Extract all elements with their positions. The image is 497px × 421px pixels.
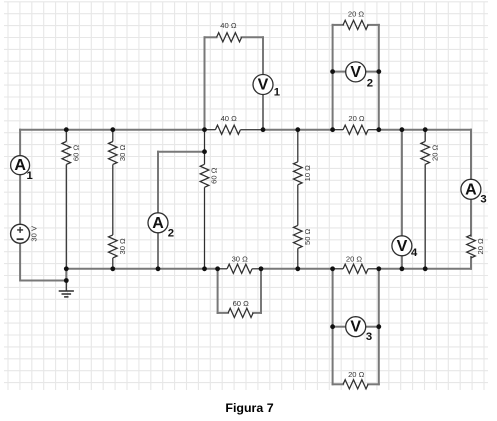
wire V3 right lead [365, 326, 379, 328]
wire 10-50 branch middle run [297, 185, 299, 226]
svg-text:40 Ω: 40 Ω [221, 114, 238, 123]
junction top bus / V4 [400, 127, 405, 132]
wire loop2 right vertical [378, 25, 380, 130]
wire A1 to source [19, 175, 21, 225]
voltmeter V2 [346, 62, 373, 89]
junction top bus / 30-30 branch [110, 127, 115, 132]
wire V3 loop right vertical [378, 269, 380, 385]
resistor 60-ohm (parallel lower) [228, 299, 253, 318]
wire top bus left segment [20, 129, 204, 131]
junction V3 left [330, 324, 335, 329]
svg-text:3: 3 [366, 331, 372, 343]
resistor 20-ohm (right branch) [421, 130, 439, 165]
svg-text:A: A [465, 181, 477, 198]
junction bottom bus / 30-30 branch [110, 266, 115, 271]
wire ground branch stub [65, 269, 67, 281]
resistor 40-ohm (top bus) [205, 114, 264, 134]
wire V2 left lead [333, 71, 347, 73]
wire 60-ohm branch lower run [65, 165, 67, 269]
junction bottom bus / V3 loop left [330, 266, 335, 271]
wire A3 to resistor [470, 199, 472, 236]
ammeter A2 [148, 213, 174, 240]
svg-text:3: 3 [480, 194, 486, 206]
junction top bus / 10-50 branch [295, 127, 300, 132]
junction V2 right [376, 69, 381, 74]
voltage source 30V [11, 224, 39, 243]
wire parallel-60 bottom right lead [253, 312, 261, 314]
wire V3 left lead [333, 326, 347, 328]
svg-text:V: V [350, 64, 361, 81]
svg-text:30 Ω: 30 Ω [118, 145, 127, 162]
wire loop2 left vertical [332, 25, 334, 130]
junction bottom bus / 10-50 branch [295, 266, 300, 271]
junction top bus / 60-ohm branch [64, 127, 69, 132]
resistor 40-ohm (top loop) [217, 21, 242, 42]
junction bottom bus / mid-60 branch [202, 266, 207, 271]
svg-text:A: A [14, 157, 26, 174]
wire loop2 top right lead [368, 24, 379, 26]
junction top bus / loop2 left [330, 127, 335, 132]
svg-text:40 Ω: 40 Ω [220, 21, 237, 30]
wire V4 lower lead [401, 255, 403, 268]
junction V2 left [330, 69, 335, 74]
junction ground node [64, 278, 69, 283]
wire right edge lower [470, 257, 472, 269]
svg-text:2: 2 [367, 77, 373, 89]
wire 10-50 branch bottom lead [297, 248, 299, 268]
junction top bus / 20-ohm branch [423, 127, 428, 132]
svg-text:V: V [258, 77, 269, 94]
svg-text:60 Ω: 60 Ω [210, 167, 219, 184]
junction V3 right [376, 324, 381, 329]
junction bottom bus / V4 [400, 266, 405, 271]
svg-text:20 Ω: 20 Ω [430, 144, 439, 161]
wire parallel-60 right vertical [260, 269, 262, 313]
svg-text:20 Ω: 20 Ω [348, 370, 365, 379]
wire A2 upper vertical [157, 152, 159, 214]
wire 10-50 branch top lead [297, 130, 299, 162]
ammeter A1 [11, 156, 33, 182]
resistor 50-ohm [294, 225, 313, 248]
svg-text:30 V: 30 V [30, 225, 39, 242]
svg-text:2: 2 [168, 228, 174, 240]
wire 20-ohm right branch lower run [424, 164, 426, 268]
junction bottom bus / 60-ohm branch [64, 266, 69, 271]
wire V1 upper lead [262, 37, 264, 75]
resistor 30-ohm (lower, second branch) [109, 235, 128, 258]
wire loop1 top right lead [242, 36, 264, 38]
resistor 20-ohm (V3 loop bottom) [343, 370, 368, 389]
wire bottom bus right segment [379, 268, 471, 270]
svg-text:20 Ω: 20 Ω [346, 255, 363, 264]
svg-text:1: 1 [274, 86, 280, 98]
wire 30-30 branch middle run [112, 165, 114, 235]
svg-text:20 Ω: 20 Ω [476, 238, 485, 255]
resistor 30-ohm (bottom bus) [218, 255, 261, 274]
wire A2 top horizontal [158, 151, 205, 153]
wire mid-60 branch lower run [204, 187, 206, 268]
voltmeter V1 [253, 75, 280, 99]
resistor 20-ohm (top bus) [333, 114, 379, 134]
svg-text:30 Ω: 30 Ω [232, 255, 249, 264]
wire A2 lower vertical [157, 232, 159, 269]
wire right edge upper (to A3) [470, 130, 472, 180]
svg-text:V: V [397, 238, 408, 255]
svg-text:V: V [350, 319, 361, 336]
wire V3 loop bottom right lead [368, 383, 379, 385]
junction top bus / loop2 right [376, 127, 381, 132]
wire bottom bus middle segment [261, 268, 333, 270]
wire top bus middle segment [263, 129, 333, 131]
wire top bus right segment [379, 129, 471, 131]
junction A2 tap on mid branch [202, 149, 207, 154]
wire parallel-60 bottom left lead [218, 312, 229, 314]
svg-text:4: 4 [411, 247, 418, 259]
svg-text:50 Ω: 50 Ω [303, 228, 312, 245]
svg-text:1: 1 [27, 170, 33, 182]
junction bottom bus / V3 loop right [376, 266, 381, 271]
wire bottom bus left segment [66, 268, 217, 270]
resistor 60-ohm (left branch) [62, 130, 80, 165]
resistor 60-ohm (middle branch) [200, 164, 219, 187]
svg-text:20 Ω: 20 Ω [348, 114, 365, 123]
junction bottom bus / parallel right [259, 266, 264, 271]
junction top bus / V1 [261, 127, 266, 132]
wire loop1 left vertical [204, 37, 206, 129]
wire loop2 top left lead [333, 24, 344, 26]
resistor 20-ohm (right edge) [467, 235, 486, 258]
wire source to ground node [20, 243, 66, 280]
wire V2 right lead [365, 71, 379, 73]
junction bottom bus / 20-ohm branch [423, 266, 428, 271]
wire 30-30 branch lower lead [112, 258, 114, 269]
wire V1 lower lead [262, 95, 264, 130]
wire loop1 top left lead [205, 36, 217, 38]
resistor 10-ohm [294, 162, 313, 185]
ground [59, 281, 74, 297]
ammeter A3 [461, 179, 487, 205]
svg-text:10 Ω: 10 Ω [303, 165, 312, 182]
wire left riser top (to ammeter A1) [19, 130, 21, 156]
junction top bus / loop1 left [202, 127, 207, 132]
resistor 20-ohm (top loop) [343, 10, 368, 30]
svg-text:60 Ω: 60 Ω [233, 299, 250, 308]
voltmeter V3 [346, 317, 372, 343]
wire parallel-60 left vertical [217, 269, 219, 313]
svg-text:20 Ω: 20 Ω [348, 10, 365, 19]
svg-text:A: A [152, 215, 164, 232]
wire mid-60 branch upper lead [204, 130, 206, 165]
resistor 30-ohm (upper, second branch) [109, 130, 128, 165]
svg-text:Figura 7: Figura 7 [225, 401, 273, 415]
wire V4 upper vertical [401, 130, 403, 237]
junction bottom bus / parallel left [215, 266, 220, 271]
voltmeter V4 [392, 236, 418, 259]
resistor 20-ohm (bottom bus) [333, 255, 379, 274]
wire V3 loop left vertical [332, 269, 334, 385]
wire V3 loop bottom left lead [333, 383, 344, 385]
junction bottom bus / A2 [156, 266, 161, 271]
svg-text:60 Ω: 60 Ω [72, 145, 81, 162]
svg-text:30 Ω: 30 Ω [118, 238, 127, 255]
